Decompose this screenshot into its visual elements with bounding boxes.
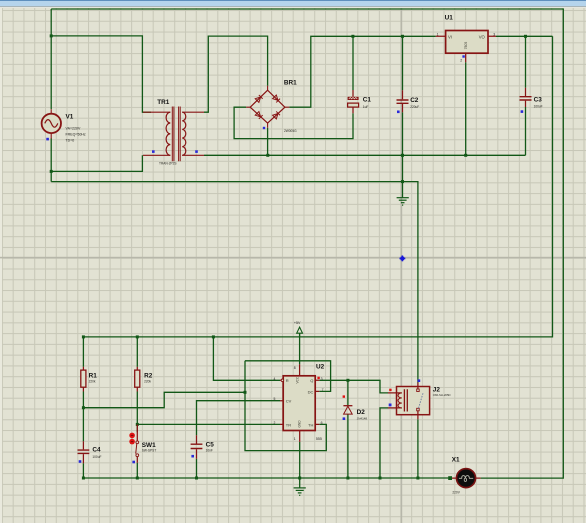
svg-text:C3: C3	[534, 97, 543, 104]
svg-text:C4: C4	[92, 447, 101, 454]
svg-text:TR: TR	[286, 422, 291, 427]
svg-text:C2: C2	[410, 97, 419, 104]
svg-text:GND: GND	[297, 420, 301, 428]
svg-text:V1: V1	[66, 113, 74, 120]
svg-text:TH: TH	[308, 422, 313, 427]
svg-text:X1: X1	[452, 456, 460, 463]
svg-text:1N4148: 1N4148	[357, 416, 368, 420]
svg-text:2W005G: 2W005G	[284, 129, 297, 133]
svg-text:8: 8	[294, 366, 296, 370]
svg-text:100uF: 100uF	[92, 455, 101, 459]
svg-text:CV: CV	[286, 399, 292, 404]
svg-text:U2: U2	[316, 364, 325, 371]
svg-text:10nF: 10nF	[206, 449, 213, 453]
svg-text:220k: 220k	[89, 379, 96, 383]
svg-text:VA=220V: VA=220V	[66, 127, 81, 131]
svg-text:+5V: +5V	[294, 321, 301, 325]
svg-text:1uF: 1uF	[363, 105, 369, 109]
svg-text:C1: C1	[363, 97, 372, 104]
svg-text:5: 5	[274, 397, 276, 401]
svg-text:TRAN-2P2S: TRAN-2P2S	[159, 162, 177, 166]
svg-text:555: 555	[316, 437, 322, 441]
svg-text:FREQ=50Hz: FREQ=50Hz	[66, 133, 86, 137]
svg-text:R: R	[286, 378, 289, 383]
svg-text:2: 2	[460, 58, 462, 62]
svg-text:SW-SPST: SW-SPST	[142, 449, 157, 453]
svg-text:TR1: TR1	[157, 99, 170, 106]
svg-text:2: 2	[274, 421, 276, 425]
svg-text:U1: U1	[445, 15, 454, 22]
svg-text:VI: VI	[448, 35, 452, 40]
svg-text:D2: D2	[357, 409, 366, 416]
svg-text:220V: 220V	[452, 491, 460, 495]
svg-text:BR1: BR1	[284, 79, 297, 86]
svg-text:TD=0: TD=0	[66, 138, 75, 142]
svg-text:3: 3	[321, 377, 323, 381]
svg-text:220uF: 220uF	[410, 105, 419, 109]
svg-text:VO: VO	[479, 35, 486, 40]
svg-text:Q: Q	[310, 378, 313, 383]
svg-text:4: 4	[274, 377, 276, 381]
svg-text:100uF: 100uF	[534, 105, 543, 109]
svg-text:1: 1	[437, 32, 439, 36]
svg-text:1: 1	[294, 437, 296, 441]
svg-text:C5: C5	[206, 442, 215, 449]
svg-text:VCC: VCC	[296, 376, 300, 383]
svg-text:DC: DC	[308, 389, 314, 394]
svg-text:7805: 7805	[464, 42, 468, 50]
svg-text:7: 7	[322, 388, 324, 392]
svg-text:6: 6	[321, 421, 323, 425]
svg-text:220k: 220k	[144, 379, 151, 383]
svg-text:3: 3	[493, 32, 495, 36]
svg-text:OMI-SH-205D: OMI-SH-205D	[433, 393, 451, 397]
